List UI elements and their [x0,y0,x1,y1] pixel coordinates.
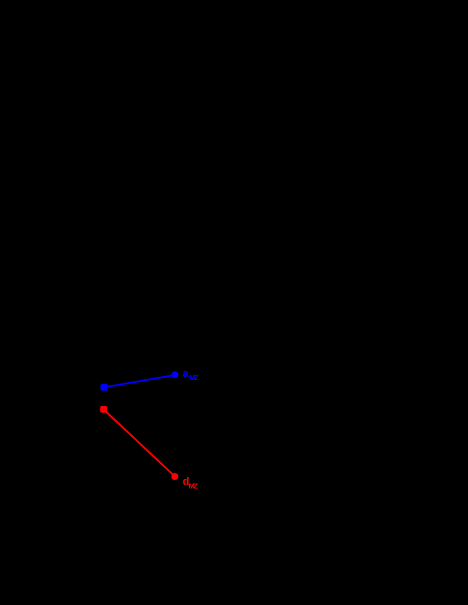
wire red line d (dominance) [104,409,175,476]
node blue marker left [101,384,108,391]
label d_MZ [183,476,199,491]
label a_MZ [183,368,200,382]
svg-text:MZ: MZ [189,482,199,491]
svg-text:MZ: MZ [189,373,199,382]
node red marker right [171,473,178,480]
node blue marker right [172,371,179,378]
node red marker left [100,406,107,413]
wire blue line a (MZ additive) [104,375,175,387]
